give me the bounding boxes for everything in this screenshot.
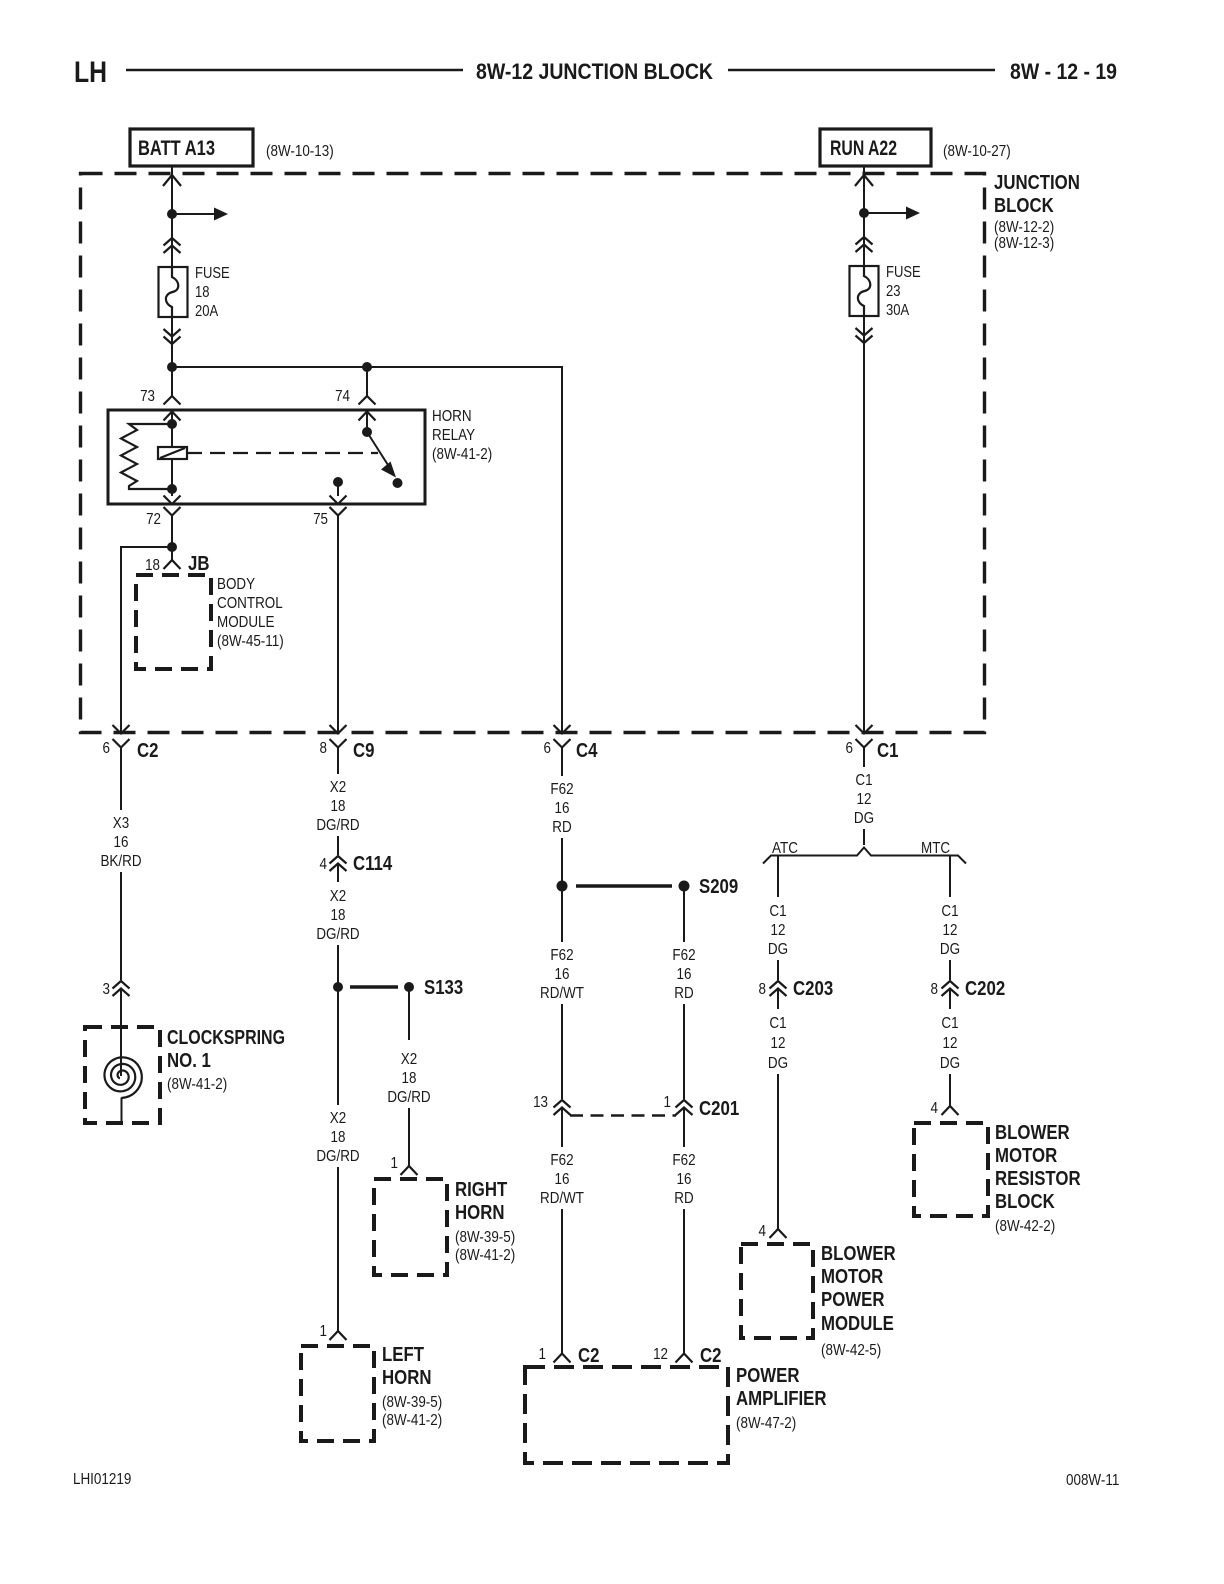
svg-text:RD: RD	[674, 1190, 693, 1207]
svg-text:(8W-10-13): (8W-10-13)	[266, 143, 334, 160]
svg-text:6: 6	[103, 740, 111, 757]
wire S133 to right horn lower	[408, 1108, 410, 1166]
wire BATT A13 to fuse 18	[171, 166, 173, 267]
svg-text:FUSE: FUSE	[886, 264, 921, 281]
svg-text:8W-12 JUNCTION BLOCK: 8W-12 JUNCTION BLOCK	[476, 59, 713, 84]
svg-text:C2: C2	[137, 740, 159, 762]
svg-text:RD: RD	[674, 985, 693, 1002]
svg-text:1: 1	[391, 1155, 399, 1172]
junction dot at S133 left	[333, 982, 343, 992]
svg-text:C2: C2	[578, 1345, 600, 1367]
svg-text:LEFT: LEFT	[382, 1344, 424, 1366]
fuse F23 body	[850, 266, 879, 316]
wire C1 to split bracket	[863, 829, 865, 845]
svg-text:1: 1	[539, 1346, 547, 1363]
svg-text:DG/RD: DG/RD	[316, 1148, 359, 1165]
exit arrow into connector C1	[856, 725, 873, 734]
relay contact dot (N.O.)	[393, 478, 403, 488]
junction dot relay coil top	[167, 419, 177, 429]
wire to blower motor resistor block	[949, 1074, 951, 1106]
svg-text:F62: F62	[550, 947, 573, 964]
svg-text:BLOWER: BLOWER	[995, 1122, 1070, 1144]
svg-text:F62: F62	[550, 781, 573, 798]
svg-text:DG: DG	[854, 810, 874, 827]
wire C2 upper segment	[120, 760, 122, 810]
svg-text:HORN: HORN	[455, 1202, 505, 1224]
wire C4 upper segment	[561, 760, 563, 776]
connector fork power module	[770, 1229, 787, 1238]
svg-text:1: 1	[664, 1094, 672, 1111]
svg-text:(8W-42-2): (8W-42-2)	[995, 1218, 1055, 1235]
svg-text:(8W-41-2): (8W-41-2)	[455, 1247, 515, 1264]
svg-text:12: 12	[771, 1035, 786, 1052]
wire to power amplifier pin 1	[561, 1209, 563, 1354]
branch arrow to right (other circuits)	[172, 213, 215, 215]
wire below C203	[777, 989, 779, 1009]
connector chevrons above fuse 18	[164, 238, 181, 246]
svg-text:8: 8	[320, 740, 328, 757]
svg-text:18: 18	[402, 1070, 417, 1087]
wire S133 to right horn upper	[408, 987, 410, 1040]
right horn box (dashed)	[374, 1179, 447, 1275]
svg-text:MODULE: MODULE	[821, 1313, 894, 1335]
svg-text:(8W-12-3): (8W-12-3)	[994, 235, 1054, 252]
splice S209 link	[576, 884, 672, 888]
svg-text:72: 72	[146, 511, 161, 528]
connector fork right horn	[401, 1166, 418, 1175]
relay switch blade (open, arrow)	[367, 432, 388, 465]
svg-text:DG: DG	[768, 941, 788, 958]
svg-text:16: 16	[555, 1171, 570, 1188]
svg-text:AMPLIFIER: AMPLIFIER	[736, 1388, 827, 1410]
svg-text:DG/RD: DG/RD	[316, 926, 359, 943]
svg-text:X2: X2	[330, 779, 346, 796]
splice S133 dot	[404, 982, 414, 992]
svg-text:3: 3	[103, 981, 111, 998]
pin 75 exit	[330, 507, 347, 516]
svg-text:12: 12	[857, 791, 872, 808]
splice S133 link	[350, 985, 398, 989]
svg-text:C203: C203	[793, 978, 833, 1000]
svg-text:RD: RD	[552, 819, 571, 836]
blower motor resistor block box (dashed)	[914, 1123, 988, 1216]
wire S209 down	[683, 886, 685, 942]
junction dot at bus	[167, 362, 177, 372]
relay actuator dashed link	[187, 452, 378, 454]
svg-text:RESISTOR: RESISTOR	[995, 1168, 1081, 1190]
arrowhead into BATT A13	[163, 175, 181, 186]
svg-text:(8W-47-2): (8W-47-2)	[736, 1415, 796, 1432]
svg-text:RUN A22: RUN A22	[830, 137, 897, 160]
svg-text:F62: F62	[672, 947, 695, 964]
left horn box (dashed)	[301, 1346, 374, 1441]
connector chevrons above fuse 23	[856, 237, 873, 245]
wire 74 into horn relay	[366, 367, 368, 396]
svg-text:16: 16	[677, 1171, 692, 1188]
wire contact to pin 75	[337, 482, 339, 496]
svg-text:16: 16	[555, 966, 570, 983]
svg-text:BATT A13: BATT A13	[138, 137, 215, 160]
svg-text:POWER: POWER	[736, 1365, 800, 1387]
svg-text:6: 6	[846, 740, 854, 757]
wire C9 to left horn lower	[337, 1167, 339, 1331]
svg-text:RD/WT: RD/WT	[540, 985, 584, 1002]
svg-text:18: 18	[331, 798, 346, 815]
junction block boundary (dashed)	[81, 174, 985, 733]
svg-text:C9: C9	[353, 740, 375, 762]
fuse F18 body	[159, 267, 188, 317]
svg-text:BLOCK: BLOCK	[995, 1191, 1055, 1213]
svg-text:16: 16	[114, 834, 129, 851]
ATC/MTC split bracket	[763, 848, 966, 864]
blower motor power module box (dashed)	[741, 1244, 813, 1338]
branch arrow to right (run circuits)	[864, 212, 907, 214]
connector chevrons below fuse 23	[856, 328, 873, 336]
svg-text:30A: 30A	[886, 302, 910, 319]
svg-text:X3: X3	[113, 815, 129, 832]
svg-text:4: 4	[931, 1100, 939, 1117]
wire into clockspring	[120, 989, 122, 1076]
header rule right	[728, 69, 995, 72]
svg-text:(8W-45-11): (8W-45-11)	[217, 633, 284, 650]
svg-text:C202: C202	[965, 978, 1005, 1000]
svg-text:(8W-41-2): (8W-41-2)	[432, 446, 492, 463]
svg-text:12: 12	[771, 922, 786, 939]
svg-text:DG: DG	[940, 941, 960, 958]
svg-text:12: 12	[653, 1346, 668, 1363]
wire to power amplifier pin 12	[683, 1209, 685, 1354]
wire below C201 pin 1	[683, 1108, 685, 1147]
svg-text:C2: C2	[700, 1345, 722, 1367]
exit arrow into connector C4	[554, 725, 571, 734]
svg-text:DG/RD: DG/RD	[387, 1089, 430, 1106]
node RUN A22 feed box	[820, 129, 931, 166]
svg-text:MODULE: MODULE	[217, 614, 275, 631]
wire MTC branch upper	[949, 856, 951, 898]
svg-text:S209: S209	[699, 876, 738, 898]
wire C9 to C114	[337, 836, 339, 855]
svg-text:12: 12	[943, 1035, 958, 1052]
connector fork power amp pin 1	[554, 1354, 571, 1363]
wire C1 upper segment	[863, 760, 865, 767]
svg-text:DG/RD: DG/RD	[316, 817, 359, 834]
svg-text:CONTROL: CONTROL	[217, 595, 283, 612]
relay coil core symbol	[171, 424, 173, 489]
power amplifier box (dashed)	[525, 1367, 728, 1463]
connector C2 fork	[113, 739, 130, 748]
connector C201 dashed link	[570, 1114, 676, 1117]
svg-text:6: 6	[544, 740, 552, 757]
svg-text:18: 18	[331, 1129, 346, 1146]
svg-text:74: 74	[335, 388, 350, 405]
svg-text:NO. 1: NO. 1	[167, 1050, 211, 1072]
svg-text:4: 4	[759, 1223, 767, 1240]
junction dot RUN branch	[859, 208, 869, 218]
svg-text:C1: C1	[855, 772, 872, 789]
svg-text:8: 8	[759, 981, 767, 998]
svg-text:HORN: HORN	[382, 1367, 432, 1389]
svg-text:(8W-41-2): (8W-41-2)	[382, 1412, 442, 1429]
clockspring coil spiral	[105, 1057, 142, 1098]
svg-text:13: 13	[533, 1094, 548, 1111]
svg-text:X2: X2	[330, 1110, 346, 1127]
svg-text:F62: F62	[672, 1152, 695, 1169]
svg-text:008W-11: 008W-11	[1066, 1472, 1119, 1489]
svg-text:JB: JB	[188, 553, 210, 575]
horn relay box	[108, 410, 425, 504]
svg-text:BK/RD: BK/RD	[100, 853, 141, 870]
svg-text:(8W-39-5): (8W-39-5)	[382, 1394, 442, 1411]
connector fork power amp pin 12	[676, 1354, 693, 1363]
svg-text:C114: C114	[353, 853, 393, 875]
svg-text:12: 12	[943, 922, 958, 939]
svg-text:CLOCKSPRING: CLOCKSPRING	[167, 1027, 285, 1049]
connector C203 chevrons	[770, 981, 787, 989]
svg-text:DG: DG	[940, 1055, 960, 1072]
wire to C201 pin 1	[683, 1004, 685, 1099]
svg-text:MTC: MTC	[921, 840, 950, 857]
connector C201 chevrons (pin 13)	[554, 1100, 571, 1108]
wire to splice S133	[337, 945, 339, 987]
svg-text:1: 1	[320, 1323, 328, 1340]
relay contact 75 dot	[333, 477, 343, 487]
svg-text:HORN: HORN	[432, 408, 472, 425]
svg-text:18: 18	[145, 557, 160, 574]
svg-text:C1: C1	[941, 1015, 958, 1032]
wire to splice S209	[561, 838, 563, 886]
wire branch to C2 exit	[121, 547, 172, 733]
svg-text:X2: X2	[401, 1051, 417, 1068]
wire RUN A22 to fuse 23	[863, 166, 865, 266]
wire to C201 pin 13	[561, 1004, 563, 1099]
wire bus to C4 feeder	[172, 367, 562, 733]
header rule left	[126, 69, 463, 72]
svg-text:C201: C201	[699, 1098, 739, 1120]
exit arrow into connector C9	[330, 725, 347, 734]
junction dot 72/C2 branch	[167, 542, 177, 552]
wire C2 lower segment	[120, 872, 122, 980]
svg-text:ATC: ATC	[772, 840, 798, 857]
svg-text:8: 8	[931, 981, 939, 998]
connector fork left horn	[330, 1331, 347, 1340]
pin 72 exit	[171, 489, 173, 496]
svg-text:C1: C1	[941, 903, 958, 920]
connector fork resistor block	[942, 1106, 959, 1115]
svg-text:16: 16	[677, 966, 692, 983]
wire S209-left down	[561, 886, 563, 942]
svg-text:C1: C1	[769, 903, 786, 920]
svg-text:MOTOR: MOTOR	[995, 1145, 1058, 1167]
svg-text:RELAY: RELAY	[432, 427, 475, 444]
junction dot BATT branch	[167, 209, 177, 219]
junction dot at S209 left	[557, 881, 568, 892]
svg-text:DG: DG	[768, 1055, 788, 1072]
connector chevrons below fuse 18	[164, 329, 181, 337]
wire ATC to C203	[777, 960, 779, 980]
wire clockspring exit	[121, 1098, 123, 1124]
connector C202 chevrons	[942, 981, 959, 989]
wire 72 to JB pin 18	[171, 547, 173, 560]
wire C9 to left horn upper	[337, 987, 339, 1105]
svg-text:S133: S133	[424, 977, 463, 999]
svg-text:X2: X2	[330, 888, 346, 905]
wire 73 into horn relay	[171, 367, 173, 396]
body control module box (dashed)	[136, 575, 211, 669]
svg-text:LH: LH	[74, 56, 107, 89]
wire fuse 18 to bus node	[171, 317, 173, 367]
svg-text:BLOWER: BLOWER	[821, 1243, 896, 1265]
junction dot relay coil bottom	[167, 484, 177, 494]
wire below C201 pin 13	[561, 1108, 563, 1147]
svg-text:C1: C1	[877, 740, 899, 762]
wire MTC to C202	[949, 960, 951, 980]
wire ATC branch upper	[777, 856, 779, 898]
exit arrow into connector C2	[113, 725, 130, 734]
svg-text:(8W-10-27): (8W-10-27)	[943, 143, 1011, 160]
connector C114 chevrons	[330, 856, 347, 864]
svg-text:C4: C4	[576, 740, 598, 762]
svg-text:(8W-42-5): (8W-42-5)	[821, 1342, 881, 1359]
wire C9 upper segment	[337, 760, 339, 774]
connector C9 fork	[330, 739, 347, 748]
svg-text:20A: 20A	[195, 303, 219, 320]
svg-text:LHI01219: LHI01219	[73, 1471, 131, 1488]
connector C1 fork	[856, 739, 873, 748]
svg-text:F62: F62	[550, 1152, 573, 1169]
wire fuse 23 to C1 exit	[863, 316, 865, 733]
svg-text:BLOCK: BLOCK	[994, 195, 1054, 217]
svg-text:JUNCTION: JUNCTION	[994, 172, 1080, 194]
svg-text:73: 73	[140, 388, 155, 405]
svg-text:23: 23	[886, 283, 901, 300]
svg-text:(8W-39-5): (8W-39-5)	[455, 1229, 515, 1246]
svg-text:75: 75	[313, 511, 328, 528]
connector C4 fork	[554, 739, 571, 748]
svg-text:POWER: POWER	[821, 1289, 885, 1311]
svg-text:FUSE: FUSE	[195, 265, 230, 282]
splice S209 dot	[679, 881, 690, 892]
svg-text:18: 18	[195, 284, 210, 301]
wire C114 to label	[337, 864, 339, 882]
svg-text:8W - 12 - 19: 8W - 12 - 19	[1010, 59, 1117, 84]
connector C201 chevrons (pin 1)	[676, 1100, 693, 1108]
wire to blower motor power module	[777, 1074, 779, 1229]
relay coil winding (zigzag)	[121, 424, 172, 489]
svg-text:C1: C1	[769, 1015, 786, 1032]
arrowhead into RUN A22	[855, 175, 873, 186]
svg-text:18: 18	[331, 907, 346, 924]
svg-text:RD/WT: RD/WT	[540, 1190, 584, 1207]
svg-text:BODY: BODY	[217, 576, 255, 593]
connector chevrons pin 3	[113, 981, 130, 989]
node BATT A13 feed box	[130, 129, 253, 166]
svg-text:(8W-41-2): (8W-41-2)	[167, 1076, 227, 1093]
junction dot relay switch pivot	[362, 427, 372, 437]
clockspring box (dashed)	[85, 1027, 160, 1123]
wire below C202	[949, 989, 951, 1009]
svg-text:16: 16	[555, 800, 570, 817]
svg-text:4: 4	[320, 856, 328, 873]
junction dot 74 branch	[362, 362, 372, 372]
svg-text:(8W-12-2): (8W-12-2)	[994, 219, 1054, 236]
svg-text:MOTOR: MOTOR	[821, 1266, 884, 1288]
svg-text:RIGHT: RIGHT	[455, 1179, 507, 1201]
